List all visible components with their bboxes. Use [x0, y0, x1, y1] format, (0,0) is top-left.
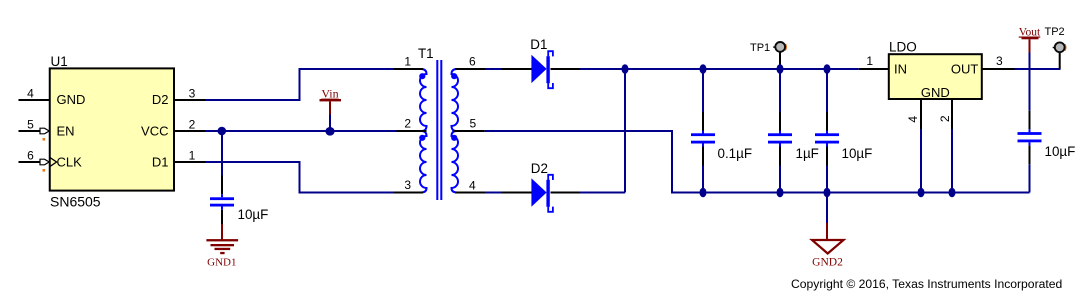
- svg-text:T1: T1: [418, 46, 434, 61]
- svg-text:EN: EN: [57, 123, 75, 138]
- svg-text:0.1µF: 0.1µF: [718, 146, 753, 161]
- transformer T1 primary upper winding: [420, 69, 427, 131]
- node junction LDO pin2 gnd: [949, 188, 956, 198]
- LDO pin 2: [951, 99, 953, 129]
- LDO pin 4: [920, 99, 922, 129]
- svg-text:GND2: GND2: [812, 257, 843, 269]
- diode D2 pins: [501, 192, 580, 194]
- svg-text:5: 5: [27, 118, 34, 132]
- ground GND2: [826, 223, 828, 240]
- svg-text:VCC: VCC: [141, 123, 168, 138]
- node junction C4 GND2 bottom: [824, 188, 831, 198]
- svg-text:Vin: Vin: [321, 87, 338, 101]
- svg-text:10µF: 10µF: [238, 207, 269, 222]
- svg-text:4: 4: [469, 179, 476, 193]
- wire D1 net from U1 pin D1 to transformer pin 3: [205, 162, 394, 193]
- capacitor C1 10uF leads: [221, 176, 223, 225]
- pin 4 GND: [19, 99, 50, 101]
- wire secondary center tap ground rail: [485, 131, 1030, 193]
- svg-text:CLK: CLK: [57, 154, 83, 169]
- svg-text:GND1: GND1: [207, 257, 236, 269]
- CLK clock wedge: [50, 158, 57, 167]
- diode D1 cathode bar: [546, 56, 549, 83]
- svg-text:4: 4: [906, 116, 920, 123]
- ground GND1: [221, 224, 223, 240]
- node junction C2 bottom: [700, 188, 707, 198]
- pin 5 EN: [19, 130, 50, 132]
- diode D2 schottky hooks: [548, 175, 553, 212]
- svg-text:GND: GND: [57, 92, 86, 107]
- pin 2 VCC: [174, 130, 205, 132]
- capacitor C3 1uF: [779, 112, 781, 166]
- node VCC-C1 junction: [218, 127, 227, 136]
- svg-text:4: 4: [27, 87, 34, 101]
- wire Vout vertical through C5: [1029, 53, 1031, 193]
- diode D1 schottky hooks: [548, 51, 553, 88]
- svg-text:1: 1: [189, 149, 196, 163]
- svg-text:Vout: Vout: [1019, 27, 1041, 39]
- transformer pin 6: [455, 68, 485, 70]
- diode D1 pins: [501, 68, 580, 70]
- transformer pin 5: [453, 130, 485, 132]
- svg-text:1: 1: [404, 55, 411, 69]
- svg-text:10µF: 10µF: [1045, 144, 1076, 159]
- transformer T1 primary lower winding: [420, 131, 427, 193]
- svg-text:D2: D2: [531, 161, 548, 176]
- wire LDO OUT to TP2 corner: [1015, 68, 1061, 70]
- wire D2 cathode to tie vertical: [580, 192, 625, 194]
- capacitor C5 10uF: [1018, 132, 1042, 135]
- pin 3 D2: [174, 99, 205, 101]
- EN input arrow: [40, 128, 49, 134]
- wire transformer pin 4 to D2 anode: [485, 192, 501, 194]
- svg-text:SN6505: SN6505: [50, 194, 101, 210]
- node Vin junction: [325, 127, 334, 136]
- diode D2 cathode bar: [546, 180, 549, 207]
- svg-text:GND: GND: [921, 85, 950, 100]
- transformer pin 3: [394, 192, 423, 194]
- svg-text:OUT: OUT: [951, 62, 979, 77]
- capacitor C2 0.1uF: [702, 112, 704, 166]
- svg-text:6: 6: [27, 149, 34, 163]
- svg-text:3: 3: [189, 87, 196, 101]
- wire C3 branch: [779, 69, 781, 193]
- svg-text:10µF: 10µF: [842, 146, 873, 161]
- LDO pin 3: [982, 68, 1015, 70]
- svg-text:2: 2: [404, 117, 411, 131]
- transformer T1 secondary lower winding: [452, 131, 459, 193]
- svg-text:3: 3: [404, 178, 411, 192]
- svg-text:IN: IN: [894, 62, 907, 77]
- wire transformer pin 6 to D1 anode: [485, 68, 501, 70]
- transformer pin 2: [397, 130, 427, 132]
- pin 1 D1: [174, 161, 205, 163]
- wire Vin drop to VCC net: [329, 115, 331, 132]
- CLK input arrow: [40, 159, 49, 165]
- wire C2 branch: [702, 69, 704, 193]
- svg-text:D2: D2: [152, 92, 169, 107]
- transformer pin 4: [455, 192, 485, 194]
- wire GND2 drop: [826, 193, 828, 224]
- wire C4 branch: [826, 69, 828, 193]
- orange no-erc tick CLK: [43, 169, 46, 172]
- wire D1 cathode output rail to LDO: [580, 68, 859, 70]
- svg-text:2: 2: [938, 115, 952, 122]
- wire VCC net from U1 to transformer pin 2: [205, 130, 397, 132]
- IC U1 SN6505 body: [50, 68, 174, 190]
- svg-text:1: 1: [866, 54, 873, 68]
- LDO regulator body: [889, 54, 982, 99]
- wire cathode tie vertical: [624, 69, 626, 193]
- svg-text:6: 6: [469, 55, 476, 69]
- svg-text:Copyright © 2016, Texas Instru: Copyright © 2016, Texas Instruments Inco…: [791, 277, 1062, 291]
- wire LDO GND pins to ground rail: [921, 129, 952, 193]
- orange no-erc tick EN: [43, 138, 46, 141]
- node junction diode tie top: [622, 64, 629, 74]
- wire D2 net from U1 pin D2 to transformer pin 1: [205, 69, 394, 100]
- svg-text:TP1: TP1: [750, 42, 770, 54]
- transformer T1 core: [437, 60, 441, 200]
- transformer T1 secondary upper winding: [452, 69, 459, 131]
- transformer pin 1: [394, 68, 423, 70]
- node junction C3 TP1 top: [777, 64, 784, 74]
- svg-text:U1: U1: [51, 54, 68, 69]
- LDO pin 1: [859, 68, 889, 70]
- diode D2 triangle: [531, 178, 546, 206]
- svg-text:2: 2: [189, 118, 196, 132]
- svg-text:1µF: 1µF: [796, 146, 819, 161]
- node junction C2 top: [700, 64, 707, 74]
- pin 6 CLK: [19, 161, 50, 163]
- node junction C4 top: [824, 64, 831, 74]
- capacitor C4 10uF: [826, 112, 828, 166]
- svg-text:D1: D1: [530, 37, 547, 52]
- svg-text:D1: D1: [152, 154, 169, 169]
- svg-text:5: 5: [470, 117, 477, 131]
- svg-text:TP2: TP2: [1045, 26, 1065, 38]
- node junction LDO pin4 gnd: [918, 188, 925, 198]
- capacitor C1 plates: [221, 194, 223, 209]
- transformer polarity dots: [419, 73, 425, 79]
- svg-text:3: 3: [996, 54, 1003, 68]
- diode D1 triangle: [531, 55, 546, 83]
- node junction C3 bottom: [777, 188, 784, 198]
- wire C1 branch from VCC junction down: [221, 131, 223, 176]
- svg-text:LDO: LDO: [889, 40, 917, 55]
